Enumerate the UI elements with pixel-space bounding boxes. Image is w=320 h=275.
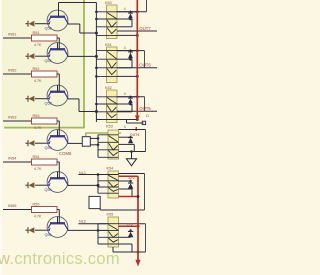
flyback diode K50 [128, 11, 133, 19]
watermark www.cntronics.com [0, 250, 120, 268]
svg-text:Q52: Q52 [45, 102, 52, 106]
wire Q50 collector to bus [68, 24, 97, 33]
wire K50 coil pin to +12 bus [117, 11, 137, 13]
resistor R55 4.7K [32, 203, 58, 219]
svg-text:K55: K55 [107, 213, 114, 217]
wire K53 left pin 3 [98, 149, 119, 151]
node chain junction y67.8 [95, 67, 98, 70]
wire K54 left pin 2 [98, 180, 119, 182]
wire NL1 to K54 [78, 174, 108, 176]
wire K51 left pin 1 [96, 50, 117, 52]
svg-text:K51: K51 [105, 43, 112, 47]
wire R53 to base of Q53 [57, 121, 59, 137]
svg-text:4: 4 [124, 92, 126, 96]
svg-text:IN55: IN55 [8, 203, 17, 208]
node Q54 junction [97, 184, 100, 187]
wire K51 coil pin to +12 bus [117, 50, 137, 52]
wire K51 left pin 3 [96, 67, 117, 69]
flyback diode K51 [128, 49, 133, 58]
svg-text:OUT5: OUT5 [139, 106, 151, 111]
svg-text:w.cntronics.com: w.cntronics.com [0, 250, 120, 268]
svg-text:R55: R55 [33, 203, 40, 207]
node chain junction y11.8 [95, 11, 98, 14]
relay K50 body [107, 5, 118, 39]
wire K54 left pin 3 [98, 186, 119, 188]
wire Q53 collector to COM6 box [68, 142, 83, 144]
net label 12V K55 [126, 223, 133, 227]
label 11 [146, 114, 150, 118]
input wire IN55 [3, 209, 32, 211]
resistor R52 4.7K [32, 67, 58, 83]
wire K54 left pin 1 [98, 174, 119, 176]
transistor Q50 [45, 10, 69, 31]
diode D52 [26, 96, 48, 102]
node K51 coil bus junction [136, 49, 139, 52]
wire K52 contact loop [117, 97, 145, 112]
wire K53 left pin 4 [98, 156, 119, 158]
diode D51 [26, 53, 48, 59]
node Q50 junction [95, 32, 98, 35]
pin number 4 K53 [124, 125, 126, 129]
wire Q52 collector to bus [68, 99, 97, 112]
wire K54 contact loop [119, 174, 145, 211]
wire COM6 pin1 [90, 137, 99, 140]
schematic sheet background [0, 0, 157, 275]
flyback diode K55 [128, 229, 134, 237]
net label IN53 [8, 115, 17, 120]
relay K52 body [107, 90, 118, 123]
node K52 coil bus junction [136, 95, 139, 98]
label K51 [105, 43, 112, 47]
diode D53 [26, 140, 48, 146]
diode D50 [26, 21, 48, 27]
base lead Q54 [57, 172, 59, 179]
green sheet-symbol interior tint [2, 0, 84, 127]
power port +12V arrow [135, 116, 140, 121]
svg-text:OUT6: OUT6 [139, 63, 151, 68]
wire K52 left pin 1 [96, 96, 117, 98]
wire output OUT5 [117, 110, 157, 112]
net label IN55 [8, 203, 17, 208]
wire K55 bottom [113, 247, 146, 252]
wire R55 to base of Q55 [57, 210, 59, 224]
svg-text:Q54: Q54 [45, 188, 52, 192]
diode D55 [26, 227, 48, 233]
flyback diode K53 [128, 136, 133, 143]
wire K50 pin to diode [117, 18, 132, 21]
node Q51 junction [95, 55, 98, 58]
transistor Q51 [45, 43, 69, 64]
net label OUT5 [139, 106, 151, 111]
transistor Q54 [45, 172, 69, 193]
transistor Q52 [45, 85, 69, 106]
wire K52 left pin 4 [96, 119, 117, 121]
wire K52 coil pin to +12 bus [117, 96, 137, 98]
wire K52 diode to pin3 [117, 104, 132, 112]
wire K52 pin to power wire [117, 120, 127, 124]
wire K50 left pin 2 [96, 18, 117, 20]
wire K55 contact loop [119, 224, 146, 252]
wire K53 left pin 2 [98, 141, 119, 143]
pin number 4 K50 [124, 7, 126, 11]
wire K50 coil pin2 to bus [117, 34, 137, 36]
svg-text:IN53: IN53 [8, 115, 17, 120]
wire K52 left pin 2 [96, 103, 117, 105]
svg-text:4.7K: 4.7K [34, 167, 42, 171]
wire Q55 collector to relay K55 [68, 229, 108, 231]
sheet symbol 2 left edge [85, 133, 87, 142]
input wire IN51 [3, 37, 32, 39]
wire R51 to base of Q51 [57, 38, 59, 50]
net label IN52 [8, 68, 17, 73]
svg-text:4: 4 [124, 125, 126, 129]
wire NL2 to K55 [78, 223, 108, 225]
wire vertical chain K55 [97, 224, 100, 244]
wire K50 left pin 1 [96, 11, 117, 13]
node K52 coil pin2 bus junction [136, 118, 139, 121]
wire K53 left pin 1 [98, 134, 119, 136]
pin number 4 K51 [124, 46, 126, 50]
net label OUT7 [139, 26, 151, 31]
node K50 coil pin2 bus junction [136, 34, 139, 37]
net label IN51 [8, 32, 17, 37]
wire K51 left pin 2 [96, 58, 117, 60]
wire R54 to base of Q54 [57, 162, 59, 179]
wire loop bottom K54 [100, 209, 144, 210]
wire K51 pin to diode [117, 58, 132, 61]
input wire IN54 [3, 161, 32, 163]
wire K55 pin4 right [119, 244, 133, 252]
net label 12V K54 [128, 176, 135, 180]
transistor Q53 [45, 130, 69, 151]
connector COM6 box [82, 137, 90, 147]
wire output OUT7 [117, 30, 157, 32]
power bus +12V vertical [136, 0, 138, 116]
power port arrow bottom [135, 260, 140, 267]
wire K52 pin to diode [117, 103, 132, 106]
wire K55 coil to +12 bus [119, 225, 139, 227]
wire K55 left pin 1 [98, 223, 119, 225]
svg-text:4.7K: 4.7K [34, 79, 42, 83]
svg-text:Q51: Q51 [45, 59, 52, 63]
wire K50 diode to pin3 [117, 19, 132, 27]
wire vertical chain K53 [97, 135, 99, 158]
sheet symbol border right edge [83, 0, 85, 128]
svg-text:R51: R51 [33, 31, 40, 35]
wire K52 coil pin2 to bus [117, 119, 137, 121]
svg-text:K53: K53 [106, 124, 113, 128]
sheet left edge [0, 0, 2, 275]
label COM6 [59, 151, 72, 156]
resistor R51 4.7K [32, 31, 58, 47]
wire K53 pin2 right [119, 136, 131, 138]
wire R52 to base of Q52 [57, 74, 59, 92]
svg-text:K52: K52 [105, 86, 112, 90]
node K55 bus junction [137, 225, 140, 228]
net label NL2 [79, 220, 86, 224]
relay K55 body [108, 217, 119, 247]
wire base of Q50 from top [59, 3, 97, 18]
svg-text:11: 11 [146, 114, 150, 118]
base lead Q53 [57, 130, 59, 137]
wire K54 pin2 right [119, 180, 131, 182]
node Q52 junction [95, 110, 98, 113]
net label NL1 [79, 171, 86, 175]
svg-text:COM6: COM6 [59, 151, 72, 156]
power port symbol [142, 121, 145, 124]
wire K53 pin3 right [119, 144, 135, 151]
base lead Q51 [57, 43, 59, 50]
wire K50 contact loop [117, 0, 147, 12]
wire K54 coil top to +12 bus [119, 175, 139, 177]
svg-text:4: 4 [124, 7, 126, 11]
node K51 coil pin2 bus junction [136, 75, 139, 78]
wire K51 diode to pin3 [117, 59, 132, 68]
svg-text:Q53: Q53 [45, 146, 52, 150]
diode D54 [26, 182, 48, 188]
pin number 4 K52 [124, 92, 126, 96]
svg-text:4.7K: 4.7K [34, 126, 42, 130]
wire Q51 collector to bus [68, 55, 97, 57]
wire COM6 pin2 [90, 144, 99, 147]
resistor R54 4.7K [32, 155, 58, 171]
relay K54 body [108, 171, 119, 198]
wire K53 contact loop [119, 130, 146, 152]
flyback diode K54 [128, 180, 134, 189]
label K55 [107, 213, 114, 217]
node chain junction y76.4 [95, 75, 98, 78]
svg-text:OUT7: OUT7 [139, 26, 151, 31]
node K55 bottom bus junction [137, 251, 140, 254]
svg-text:IN54: IN54 [8, 156, 17, 161]
node chain junction y104 [95, 103, 98, 106]
wire vertical chain K54 [97, 173, 100, 193]
transistor Q55 [45, 217, 69, 238]
svg-text:K50: K50 [105, 1, 112, 5]
sheet symbol 2 top edge [86, 132, 122, 134]
wire output OUT6 [117, 67, 157, 69]
node K50 coil bus junction [136, 10, 139, 13]
sheet symbol border bottom edge [4, 127, 85, 129]
wire K55 pin3 right [119, 236, 131, 238]
net label IN54 [8, 156, 17, 161]
label K50 [105, 1, 112, 5]
wire K55 left pin 3 [98, 236, 119, 238]
wire K55 left pin 2 [98, 229, 119, 231]
wire K51 coil pin2 to bus [117, 75, 137, 77]
wire K54 coil to +12 bus [119, 196, 139, 198]
wire vertical chain top [95, 3, 97, 123]
svg-text:R52: R52 [33, 67, 40, 71]
connector box under K54 [89, 196, 100, 208]
wire red stub above K53 [135, 127, 137, 131]
wire K51 left pin 4 [96, 75, 117, 77]
node chain junction y19 [95, 18, 98, 21]
net label OUT6 [139, 63, 151, 68]
svg-text:4: 4 [124, 46, 126, 50]
svg-text:IN51: IN51 [8, 32, 17, 37]
power bus +12V bottom vertical [137, 176, 139, 260]
svg-text:Q55: Q55 [45, 233, 52, 237]
flyback diode K52 [128, 96, 133, 104]
svg-text:R54: R54 [33, 155, 40, 159]
wire K54 left pin 4 [98, 192, 119, 194]
label K53 [106, 124, 113, 128]
svg-text:R53: R53 [33, 114, 40, 118]
wire K51 contact loop [117, 51, 145, 68]
wire K50 left pin 3 [96, 26, 117, 28]
wire K55 left pin 4 [98, 243, 119, 245]
svg-text:NL2: NL2 [79, 220, 86, 224]
base lead Q55 [57, 217, 59, 224]
wire K52 left pin 3 [96, 111, 117, 113]
svg-text:K54: K54 [107, 167, 114, 171]
relay K53 body [108, 130, 119, 159]
svg-text:Q50: Q50 [45, 27, 52, 31]
svg-text:4.7K: 4.7K [34, 43, 42, 47]
svg-text:IN52: IN52 [8, 68, 17, 73]
label K54 [107, 167, 114, 171]
input wire IN52 [3, 73, 32, 75]
label K52 [105, 86, 112, 90]
ground symbol under K53 [126, 150, 136, 166]
wire K50 left pin 4 [96, 34, 117, 36]
svg-text:4.7K: 4.7K [34, 214, 42, 218]
wire under power arrow [127, 122, 144, 124]
node K54 bus junction [137, 195, 140, 198]
wire K54 pin3 right [119, 189, 133, 197]
resistor R53 4.7K [32, 114, 58, 130]
relay K51 body [107, 47, 118, 83]
input wire IN53 [3, 120, 32, 122]
base lead Q52 [57, 85, 59, 92]
wire Q54 collector to bus [68, 184, 98, 186]
net label OUT4 [130, 133, 140, 137]
